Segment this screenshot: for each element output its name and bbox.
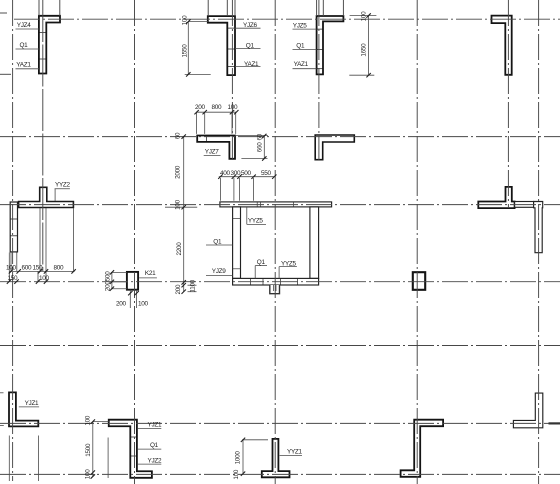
svg-text:1100: 1100 [189, 279, 196, 292]
svg-text:YJZ6: YJZ6 [243, 22, 257, 29]
extension stubs above YJZ6 [207, 0, 209, 16]
ticks left chain [182, 134, 186, 293]
thin extension / label rule lines [0, 16, 376, 482]
top-right corner column [492, 16, 512, 75]
grid axis V8 [416, 0, 418, 484]
grid axis V4 [134, 0, 136, 484]
grid axis H3 [0, 136, 560, 138]
svg-text:100: 100 [84, 415, 91, 426]
ticks dim 200 800 100 [194, 110, 238, 114]
dim 660 60 line right of YJZ7 [263, 136, 265, 159]
svg-text:100: 100 [138, 300, 149, 307]
left dim chain line [183, 137, 185, 292]
dim 1550 line [187, 22, 189, 75]
YJZ6 separators [227, 28, 235, 66]
svg-text:YJZ1: YJZ1 [25, 400, 39, 407]
svg-text:100: 100 [6, 264, 17, 271]
svg-text:K21: K21 [145, 270, 156, 277]
grid axis H7 [0, 422, 560, 424]
extension stub above YJZ4 bar [38, 0, 40, 16]
svg-text:Q1: Q1 [246, 43, 255, 50]
room bottom wall separators [251, 278, 298, 285]
svg-text:150: 150 [8, 275, 19, 282]
column YJZ7 [197, 136, 235, 159]
dimension texts rotated [84, 11, 367, 480]
svg-text:200: 200 [116, 300, 127, 307]
YJZ4 label rules [16, 28, 40, 30]
bottom Z column left [109, 420, 152, 478]
svg-text:1650: 1650 [361, 43, 368, 57]
grid axis V9 [507, 0, 509, 208]
small corner column right of YJZ7 [315, 135, 354, 160]
YJZ7 separator [206, 136, 208, 142]
ticks dim 400 300 500 550 [218, 175, 276, 179]
svg-text:200: 200 [175, 284, 182, 295]
column YJZ5 [317, 16, 344, 74]
YJZ6 label rules [234, 27, 261, 29]
thick dash right of bottom-right corner wall [549, 422, 560, 424]
svg-text:Q1: Q1 [20, 42, 29, 49]
YJZ5 label rules [293, 28, 317, 30]
svg-text:400: 400 [220, 170, 231, 177]
svg-text:YAZ1: YAZ1 [244, 61, 259, 68]
svg-text:100: 100 [228, 104, 239, 111]
right tee column [478, 187, 514, 208]
bottom-left corner column [9, 392, 38, 426]
room Q1 bottom label bracket [255, 265, 267, 267]
svg-text:YJZ2: YJZ2 [148, 457, 162, 464]
svg-text:Q1: Q1 [296, 42, 305, 49]
svg-text:100: 100 [175, 199, 182, 210]
YYZ1 dim line [242, 440, 244, 474]
YYZ2 label leader [55, 188, 70, 190]
svg-text:100: 100 [182, 15, 189, 26]
YYZ1 label rule [280, 455, 302, 457]
grid axis V2 [42, 0, 44, 271]
svg-text:550: 550 [261, 170, 272, 177]
svg-text:1550: 1550 [182, 44, 189, 58]
bottom Z separators [130, 437, 137, 456]
svg-text:YJZ4: YJZ4 [17, 22, 31, 29]
svg-text:60: 60 [175, 132, 182, 139]
ticks bottom Z [91, 419, 95, 478]
YJZ5 separators [317, 29, 323, 69]
svg-text:1500: 1500 [85, 443, 92, 457]
svg-text:300: 300 [231, 170, 242, 177]
room left wall [233, 207, 241, 279]
column YYZ2 tee [19, 187, 74, 207]
grid axis V5 [231, 0, 233, 159]
right wall segment [515, 202, 534, 208]
K21 left dims [111, 272, 113, 288]
svg-text:Q1: Q1 [213, 238, 222, 245]
column YJZ4 [39, 16, 60, 74]
column K21 [127, 272, 138, 290]
svg-text:150: 150 [33, 264, 44, 271]
svg-text:YYZ5: YYZ5 [281, 260, 297, 267]
room bottom wall [233, 278, 319, 285]
bottom Z label rules [138, 428, 162, 430]
room bottom protrusion [270, 285, 280, 294]
dim 200 800 100 line [196, 111, 236, 113]
small column on V8 [413, 272, 425, 290]
grid axis V7 upper [318, 0, 320, 160]
svg-text:2000: 2000 [175, 165, 182, 179]
grid axis V10 [538, 0, 540, 484]
svg-text:Q1: Q1 [257, 259, 266, 266]
svg-text:YJZ7: YJZ7 [205, 148, 219, 155]
column YJZ6 [208, 16, 235, 75]
svg-text:500: 500 [241, 170, 252, 177]
grid axis V3 stub [59, 0, 61, 16]
svg-text:60: 60 [256, 133, 263, 140]
room right wall [310, 207, 319, 279]
svg-text:YJZ9: YJZ9 [212, 268, 226, 275]
room top wall [220, 202, 332, 207]
bottom extension stubs [0, 392, 4, 394]
svg-text:660: 660 [256, 142, 263, 153]
extension stubs above YJZ5 [316, 0, 318, 16]
room top wall separators [257, 202, 293, 207]
bottom-left Z dim line [92, 422, 94, 477]
svg-text:200: 200 [104, 281, 111, 292]
K21 label rule [139, 277, 157, 279]
ticks K21 left [110, 270, 114, 291]
labels: horizontal texts [16, 22, 308, 464]
YJZ4 separators [39, 33, 46, 60]
svg-text:200: 200 [195, 104, 206, 111]
grid axis H1 [14, 18, 560, 20]
grid axis H1 left stub [0, 12, 7, 14]
svg-text:500: 500 [104, 271, 111, 282]
dim 1650 line [368, 16, 370, 76]
ticks dim 1650 [366, 13, 370, 77]
ticks wall bottom dims [9, 269, 76, 273]
right corner wall column [534, 202, 543, 253]
dimension tick slashes [7, 13, 371, 478]
svg-text:YJZ1: YJZ1 [148, 421, 162, 428]
dim 400 300 500 550 line [219, 176, 275, 178]
grid axis H8 [0, 473, 560, 475]
svg-text:YYZ1: YYZ1 [287, 448, 303, 455]
svg-text:YAZ1: YAZ1 [294, 61, 309, 68]
svg-text:YYZ2: YYZ2 [55, 181, 71, 188]
svg-text:100: 100 [233, 469, 240, 480]
svg-text:100: 100 [39, 275, 50, 282]
ticks dim 1550 [186, 19, 190, 76]
YJZ7 label rule [204, 155, 221, 157]
svg-text:800: 800 [54, 264, 65, 271]
ticks K21 bottom [128, 291, 139, 295]
svg-text:2200: 2200 [176, 242, 183, 256]
column YYZ1 tee [262, 439, 290, 477]
svg-text:YYZ5: YYZ5 [248, 217, 264, 224]
svg-text:600: 600 [22, 264, 33, 271]
svg-text:1000: 1000 [234, 451, 241, 465]
left wall bottom dim line [9, 270, 74, 272]
grid axis H2 left stub [0, 73, 11, 75]
grid axis V6 [274, 0, 276, 484]
room YJZ9 label rule [206, 274, 233, 276]
K21 bottom dims [129, 290, 131, 308]
dimension texts horizontal [6, 104, 272, 307]
room YYZ5 top label bracket [246, 207, 248, 224]
left wall [10, 202, 17, 252]
bottom-left L label rule [19, 406, 39, 408]
room left wall separators [233, 219, 241, 269]
svg-text:Q1: Q1 [150, 442, 159, 449]
svg-text:YAZ1: YAZ1 [16, 62, 31, 69]
bottom-right corner wall [513, 393, 542, 428]
room Q1 left label rule [206, 244, 233, 246]
room YYZ5 bottom label bracket [279, 266, 297, 268]
svg-text:100: 100 [361, 11, 368, 22]
svg-text:100: 100 [84, 469, 91, 480]
grid axis V1 [12, 0, 14, 481]
grid axis H4 [0, 204, 560, 206]
grid axis H5 [0, 281, 560, 283]
svg-text:800: 800 [212, 104, 223, 111]
grid axis H6 [0, 345, 560, 347]
ticks dim 660 [262, 134, 266, 161]
bottom Z column right [401, 420, 444, 477]
ticks YYZ1 [241, 438, 245, 476]
left wall separators [10, 219, 17, 236]
svg-text:YJZ5: YJZ5 [293, 23, 307, 30]
